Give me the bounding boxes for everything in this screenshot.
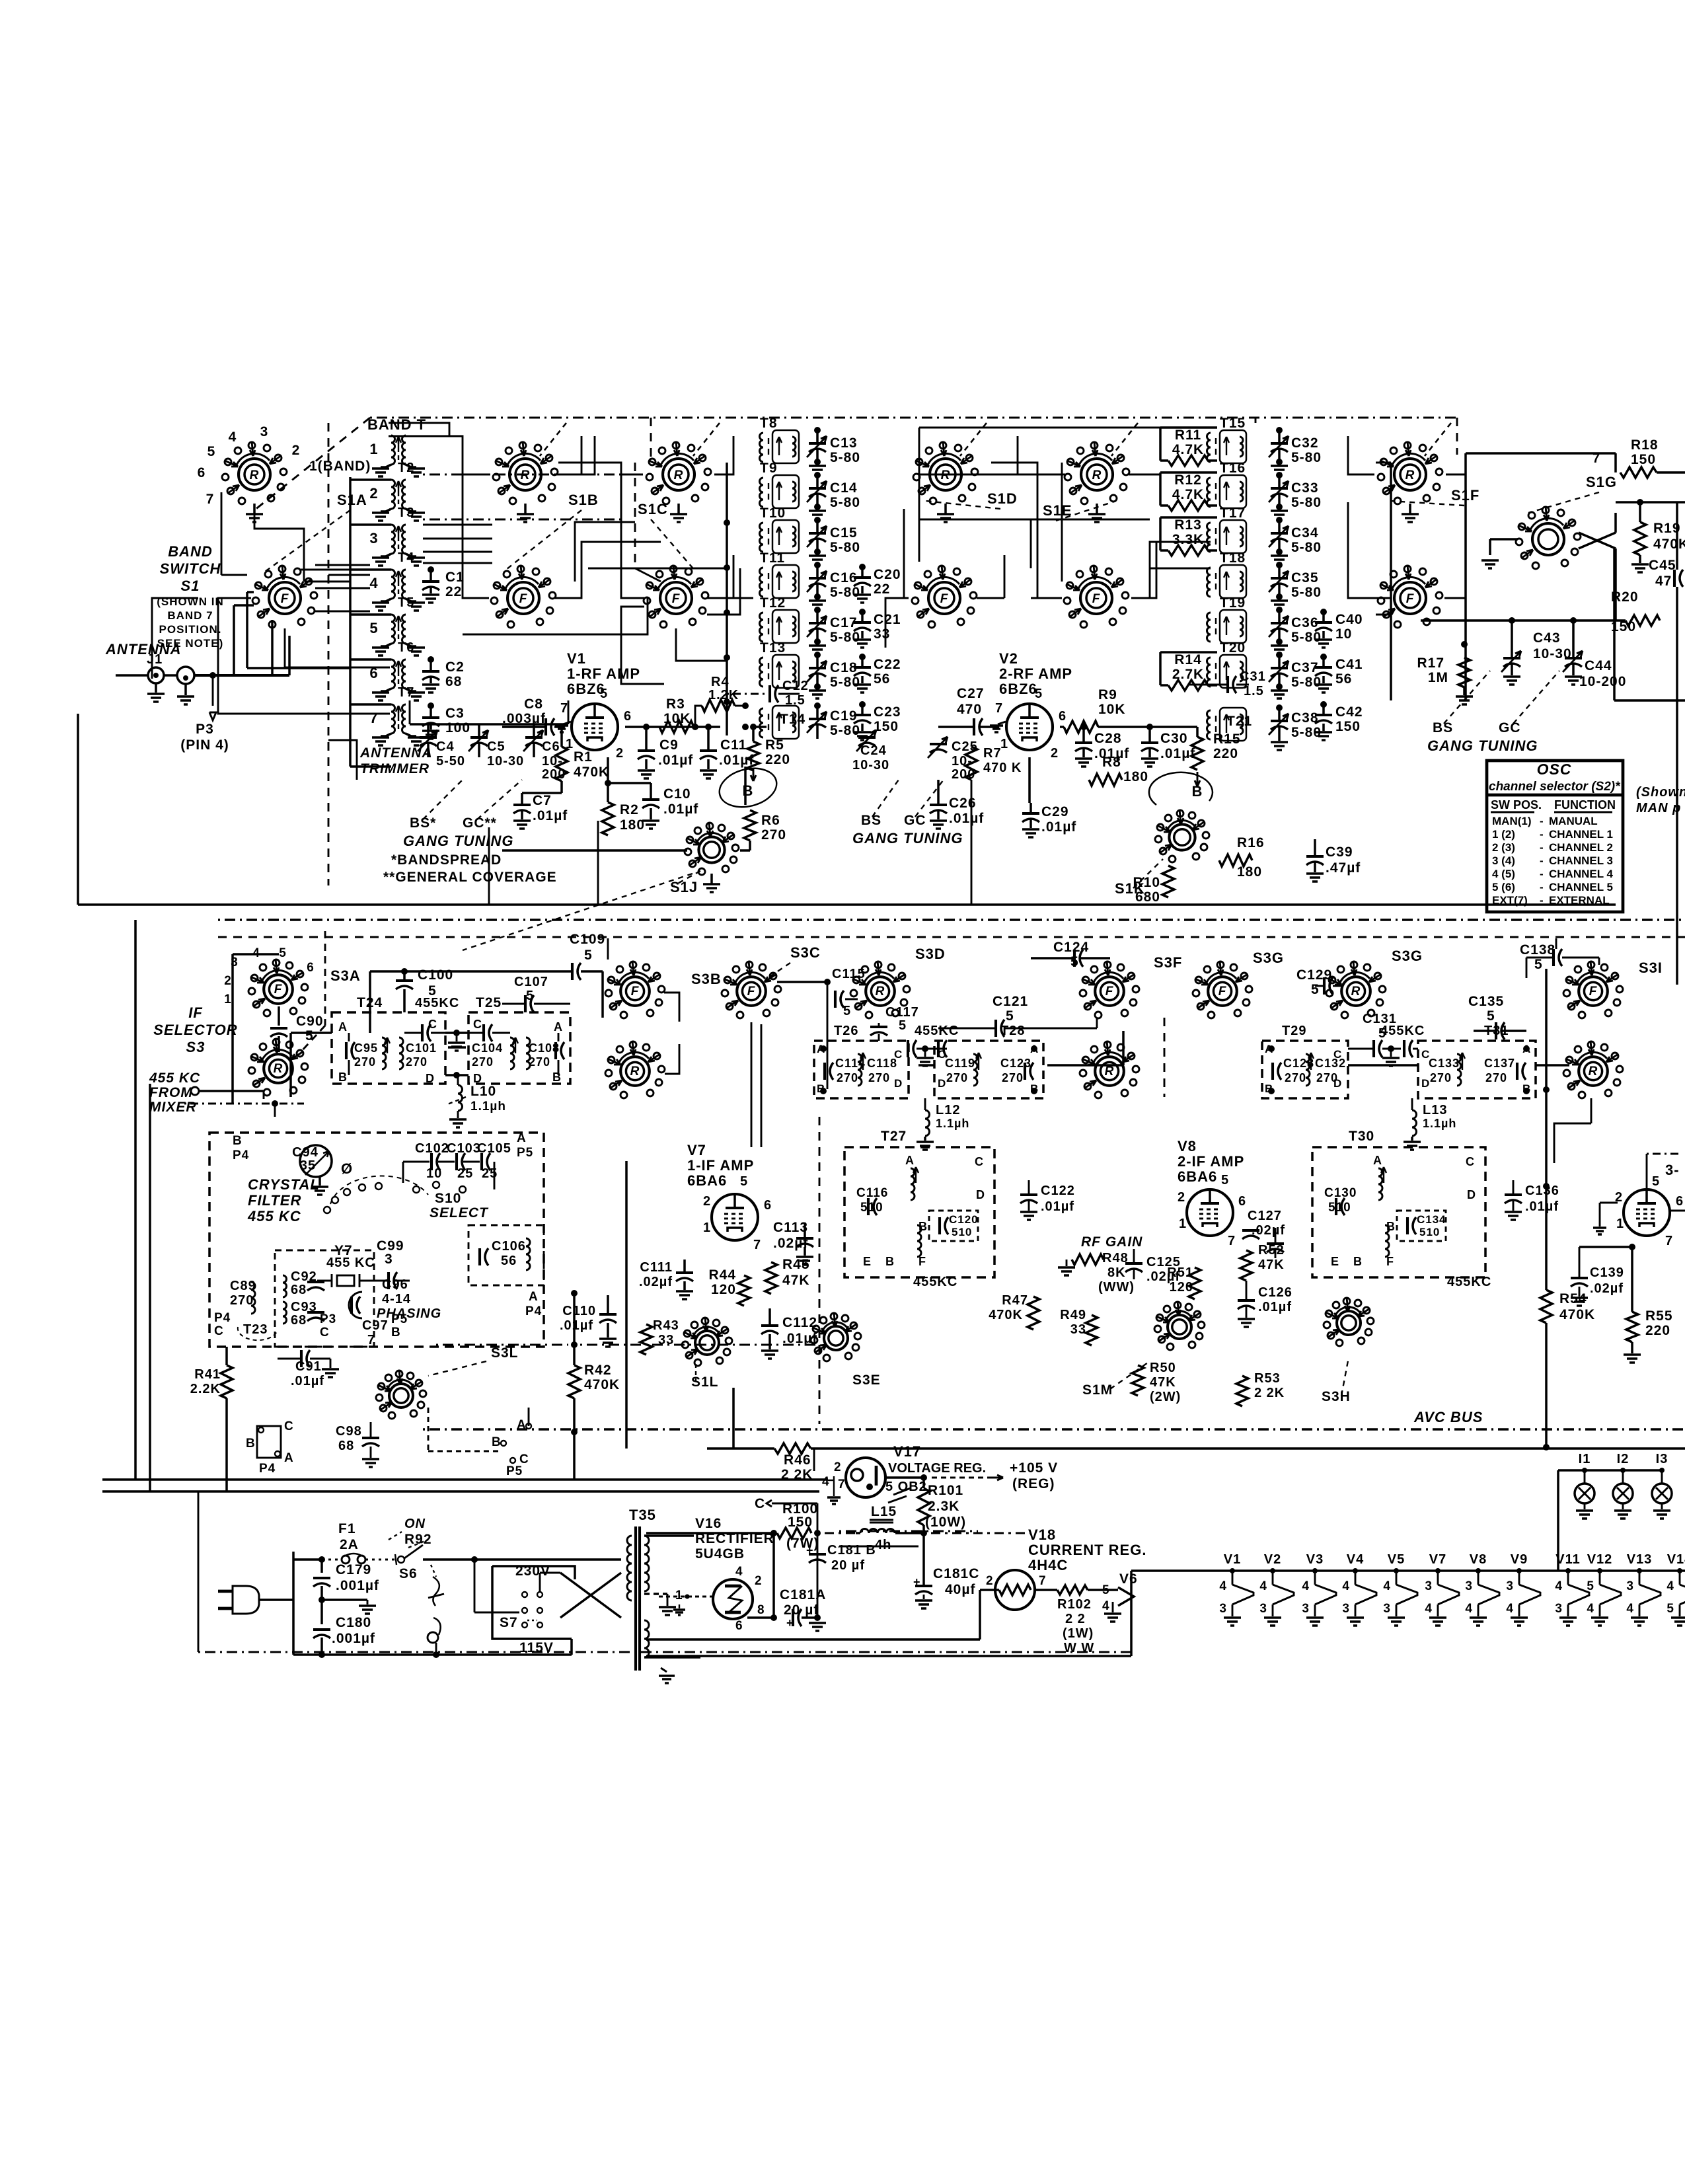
svg-text:115V: 115V (519, 1640, 554, 1655)
svg-text:channel selector (S2)*: channel selector (S2)* (1489, 780, 1621, 794)
svg-text:EXT(7): EXT(7) (1492, 894, 1528, 907)
svg-text:AVC BUS: AVC BUS (1413, 1409, 1483, 1425)
svg-text:V17: V17 (893, 1443, 921, 1460)
svg-text:S1: S1 (181, 578, 200, 594)
svg-text:270: 270 (1316, 1071, 1338, 1084)
svg-text:470K: 470K (574, 765, 609, 780)
svg-text:455KC: 455KC (915, 1024, 959, 1038)
svg-text:R6: R6 (761, 813, 780, 828)
svg-text:C100: C100 (418, 967, 453, 983)
svg-text:150: 150 (1335, 719, 1361, 734)
svg-text:R42: R42 (584, 1363, 612, 1378)
svg-text:1: 1 (675, 1589, 683, 1602)
svg-text:8K: 8K (1107, 1265, 1126, 1280)
svg-text:T6: T6 (398, 640, 414, 655)
svg-text:1.2K: 1.2K (708, 688, 739, 702)
svg-text:180: 180 (620, 817, 645, 833)
svg-text:1(BAND): 1(BAND) (309, 459, 371, 474)
svg-text:3: 3 (1383, 1602, 1391, 1616)
svg-text:5-80: 5-80 (1291, 495, 1322, 510)
svg-text:.02µf: .02µf (1252, 1223, 1285, 1238)
svg-text:68: 68 (445, 674, 462, 689)
svg-text:R48: R48 (1102, 1251, 1129, 1265)
svg-text:J1: J1 (147, 652, 163, 667)
svg-text:.01µf: .01µf (1258, 1300, 1292, 1314)
svg-text:2 2: 2 2 (1065, 1612, 1086, 1626)
svg-text:C136: C136 (1525, 1184, 1559, 1198)
svg-text:T23: T23 (243, 1322, 268, 1337)
svg-text:B: B (246, 1437, 256, 1450)
svg-text:R102: R102 (1057, 1597, 1092, 1612)
svg-text:4: 4 (229, 430, 237, 445)
svg-text:T35: T35 (629, 1507, 656, 1523)
svg-text:C117: C117 (885, 1005, 919, 1020)
svg-text:V13: V13 (1627, 1552, 1653, 1567)
svg-text:C129: C129 (1296, 967, 1332, 983)
svg-text:S3I: S3I (1639, 960, 1663, 976)
svg-text:20 µf: 20 µf (831, 1558, 865, 1573)
svg-text:D: D (1467, 1188, 1476, 1201)
svg-text:C: C (284, 1419, 294, 1433)
svg-text:1-RF AMP: 1-RF AMP (567, 665, 640, 682)
svg-text:BAND 7: BAND 7 (167, 609, 213, 622)
svg-text:D: D (426, 1072, 435, 1085)
svg-text:3 (4): 3 (4) (1492, 854, 1515, 867)
svg-text:F: F (519, 592, 528, 606)
svg-text:68: 68 (291, 1313, 307, 1328)
svg-text:68: 68 (291, 1283, 307, 1297)
svg-text:CHANNEL 1: CHANNEL 1 (1549, 828, 1613, 841)
svg-text:4.7K: 4.7K (1172, 442, 1204, 457)
svg-text:GANG TUNING: GANG TUNING (1427, 737, 1538, 754)
svg-text:C132: C132 (1315, 1057, 1346, 1070)
svg-text:2: 2 (369, 485, 378, 502)
svg-text:7: 7 (1039, 1574, 1047, 1588)
svg-text:C15: C15 (830, 525, 858, 541)
svg-text:I2: I2 (1617, 1452, 1629, 1466)
svg-text:S7: S7 (500, 1615, 518, 1630)
svg-text:1: 1 (703, 1221, 711, 1235)
svg-text:5: 5 (1221, 1173, 1229, 1187)
svg-text:C7: C7 (533, 793, 552, 808)
svg-text:R14: R14 (1174, 652, 1202, 667)
svg-text:4: 4 (1342, 1579, 1350, 1593)
svg-text:C101: C101 (406, 1041, 437, 1055)
svg-text:6: 6 (198, 465, 206, 480)
svg-text:MAN p: MAN p (1636, 801, 1681, 815)
svg-text:4 (5): 4 (5) (1492, 868, 1515, 880)
svg-text:R16: R16 (1237, 835, 1265, 850)
svg-text:.01µf: .01µf (1525, 1199, 1559, 1214)
svg-text:B: B (1353, 1255, 1363, 1268)
svg-text:C16: C16 (830, 570, 858, 585)
svg-text:C111: C111 (640, 1260, 673, 1275)
svg-text:F: F (274, 983, 283, 997)
svg-text:7: 7 (838, 1478, 846, 1491)
svg-text:10: 10 (1335, 626, 1352, 642)
svg-text:5-80: 5-80 (1291, 585, 1322, 600)
svg-text:R41: R41 (194, 1367, 221, 1382)
svg-text:V7: V7 (1429, 1552, 1446, 1567)
svg-text:W W: W W (1064, 1641, 1094, 1655)
svg-text:T17: T17 (1220, 506, 1246, 521)
svg-text:C35: C35 (1291, 570, 1319, 585)
svg-text:470K: 470K (1653, 537, 1685, 552)
svg-text:BS*: BS* (410, 815, 436, 831)
svg-text:CHANNEL 4: CHANNEL 4 (1549, 868, 1614, 880)
svg-text:S3C: S3C (790, 944, 821, 961)
svg-text:I1: I1 (1579, 1452, 1591, 1466)
svg-text:S3: S3 (186, 1039, 206, 1055)
svg-text:C42: C42 (1335, 704, 1363, 720)
svg-text:C: C (214, 1324, 224, 1338)
svg-text:1.5: 1.5 (785, 693, 805, 708)
svg-text:C31: C31 (1240, 669, 1266, 684)
svg-text:R43: R43 (653, 1318, 679, 1333)
svg-text:22: 22 (445, 584, 462, 599)
svg-text:C36: C36 (1291, 615, 1319, 630)
svg-text:C181A: C181A (780, 1587, 826, 1602)
svg-text:T15: T15 (1220, 416, 1246, 431)
svg-text:6BA6: 6BA6 (1178, 1168, 1217, 1185)
svg-text:-: - (1540, 841, 1544, 854)
svg-text:.01µf: .01µf (949, 811, 984, 826)
svg-text:R: R (1589, 1065, 1598, 1078)
svg-text:S3A: S3A (330, 967, 361, 984)
svg-text:270: 270 (761, 827, 786, 843)
svg-text:D: D (938, 1077, 946, 1090)
svg-text:.01µf: .01µf (1041, 819, 1076, 835)
svg-text:C40: C40 (1335, 612, 1363, 627)
svg-text:455KC: 455KC (415, 996, 459, 1010)
svg-text:270: 270 (837, 1071, 858, 1084)
svg-text:(1W): (1W) (1063, 1626, 1094, 1641)
svg-text:120: 120 (711, 1282, 736, 1297)
svg-text:V4: V4 (1347, 1552, 1364, 1567)
svg-text:MAN(1): MAN(1) (1492, 815, 1532, 827)
svg-text:C39: C39 (1326, 845, 1353, 860)
svg-text:F: F (1218, 985, 1227, 998)
svg-text:4H4C: 4H4C (1028, 1557, 1068, 1573)
svg-text:C121: C121 (992, 994, 1028, 1009)
svg-text:CHANNEL 5: CHANNEL 5 (1549, 881, 1613, 893)
svg-text:C5: C5 (487, 739, 505, 754)
svg-text:5: 5 (1006, 1008, 1014, 1024)
svg-text:5-80: 5-80 (830, 630, 860, 645)
svg-text:5: 5 (1035, 687, 1043, 701)
svg-text:F: F (672, 592, 681, 606)
svg-text:5U4GB: 5U4GB (695, 1546, 745, 1562)
svg-text:C96: C96 (382, 1277, 408, 1292)
svg-text:R: R (1351, 985, 1361, 998)
svg-text:7: 7 (995, 701, 1003, 716)
svg-text:2: 2 (1051, 746, 1059, 761)
svg-text:T7: T7 (398, 685, 414, 700)
svg-text:3: 3 (1219, 1602, 1227, 1616)
svg-text:.02µf: .02µf (639, 1275, 673, 1289)
svg-text:180: 180 (1123, 769, 1148, 784)
svg-text:4h: 4h (875, 1538, 891, 1552)
svg-text:C: C (755, 1496, 765, 1511)
svg-text:C: C (1466, 1155, 1475, 1168)
svg-text:56: 56 (501, 1254, 517, 1268)
svg-text:7: 7 (369, 710, 378, 726)
svg-text:F: F (940, 592, 949, 606)
svg-text:C29: C29 (1041, 804, 1069, 819)
svg-text:150: 150 (1631, 452, 1656, 467)
svg-text:270: 270 (1485, 1071, 1507, 1084)
svg-text:SW POS.: SW POS. (1491, 798, 1542, 811)
svg-text:56: 56 (1335, 671, 1352, 687)
svg-text:R: R (521, 469, 531, 482)
svg-text:2: 2 (224, 974, 232, 988)
svg-text:3: 3 (1506, 1579, 1514, 1593)
svg-text:R: R (1405, 469, 1415, 482)
svg-text:(7W): (7W) (786, 1536, 819, 1551)
svg-text:-: - (1540, 868, 1544, 880)
svg-text:2A: 2A (340, 1537, 359, 1552)
svg-text:470 K: 470 K (983, 761, 1022, 775)
svg-text:455 KC: 455 KC (149, 1071, 200, 1086)
svg-text:1.1µh: 1.1µh (936, 1117, 969, 1130)
svg-text:C109: C109 (570, 932, 605, 947)
svg-text:5: 5 (1587, 1579, 1594, 1593)
svg-text:(PIN 4): (PIN 4) (180, 737, 229, 753)
svg-text:2: 2 (703, 1194, 711, 1209)
svg-text:3.3K: 3.3K (1172, 532, 1204, 547)
svg-text:SELECTOR: SELECTOR (153, 1022, 237, 1038)
svg-text:2: 2 (1178, 1190, 1185, 1205)
svg-text:5-80: 5-80 (830, 585, 860, 600)
svg-text:T16: T16 (1220, 461, 1246, 476)
svg-text:.01µf: .01µf (658, 753, 693, 768)
svg-text:C95: C95 (354, 1041, 378, 1055)
svg-text:V1: V1 (567, 650, 586, 667)
svg-text:(2W): (2W) (1150, 1390, 1181, 1404)
svg-text:150: 150 (788, 1515, 813, 1530)
svg-text:5: 5 (1652, 1174, 1660, 1189)
svg-text:GC: GC (1499, 720, 1521, 735)
svg-text:R46: R46 (784, 1452, 811, 1468)
svg-text:5 OB2: 5 OB2 (885, 1480, 927, 1494)
svg-text:455 KC: 455 KC (247, 1208, 301, 1224)
svg-text:33: 33 (1070, 1322, 1086, 1337)
svg-text:C37: C37 (1291, 660, 1319, 675)
svg-text:2: 2 (616, 746, 624, 761)
svg-text:IF: IF (188, 1004, 203, 1021)
svg-text:C19: C19 (830, 708, 858, 724)
svg-text:470: 470 (957, 702, 982, 717)
svg-text:5-80: 5-80 (1291, 540, 1322, 555)
svg-text:C181 B: C181 B (827, 1543, 876, 1558)
svg-text:5-80: 5-80 (1291, 675, 1322, 690)
svg-text:4: 4 (1465, 1602, 1473, 1616)
svg-text:C34: C34 (1291, 525, 1319, 541)
svg-text:+: + (913, 1575, 921, 1589)
svg-text:R3: R3 (666, 697, 685, 712)
svg-text:P4: P4 (233, 1148, 249, 1162)
svg-text:B: B (918, 1220, 928, 1233)
svg-text:C119: C119 (945, 1057, 975, 1070)
svg-text:C38: C38 (1291, 710, 1319, 726)
svg-text:R52: R52 (1258, 1243, 1285, 1258)
svg-text:5: 5 (305, 1028, 314, 1043)
svg-text:R101: R101 (928, 1483, 963, 1498)
svg-text:47: 47 (1655, 574, 1672, 589)
svg-text:C9: C9 (659, 737, 679, 753)
svg-text:R49: R49 (1060, 1308, 1086, 1322)
svg-text:R: R (1092, 469, 1102, 482)
svg-text:B: B (233, 1134, 243, 1148)
svg-text:4: 4 (1666, 1579, 1674, 1593)
svg-text:C94: C94 (292, 1145, 318, 1160)
svg-text:R7: R7 (983, 746, 1002, 761)
svg-text:T31: T31 (1484, 1024, 1509, 1038)
svg-text:5-80: 5-80 (830, 723, 860, 738)
svg-text:.01µf: .01µf (291, 1374, 324, 1388)
svg-text:.01µf: .01µf (560, 1318, 593, 1333)
svg-text:5: 5 (1070, 954, 1079, 969)
svg-text:FROM: FROM (149, 1085, 193, 1100)
svg-text:R44: R44 (708, 1267, 736, 1283)
svg-text:T5: T5 (398, 595, 414, 610)
svg-text:-: - (1540, 815, 1544, 827)
svg-text:V5: V5 (1388, 1552, 1405, 1567)
svg-text:455 KC: 455 KC (326, 1256, 375, 1270)
svg-text:510: 510 (952, 1226, 972, 1238)
svg-text:6BA6: 6BA6 (687, 1172, 727, 1189)
svg-text:ANTENNA: ANTENNA (105, 641, 182, 658)
svg-text:S3G: S3G (1253, 950, 1284, 966)
svg-text:S3L: S3L (491, 1345, 519, 1361)
svg-text:R: R (250, 469, 260, 482)
svg-text:S6: S6 (399, 1566, 418, 1581)
svg-text:2-IF AMP: 2-IF AMP (1178, 1153, 1244, 1170)
svg-text:A: A (529, 1290, 539, 1304)
svg-text:270: 270 (230, 1293, 254, 1308)
svg-text:2.2K: 2.2K (190, 1382, 221, 1396)
svg-text:T19: T19 (1220, 595, 1246, 611)
svg-text:B: B (338, 1071, 348, 1084)
svg-text:C32: C32 (1291, 435, 1319, 451)
svg-text:R4: R4 (711, 675, 730, 689)
svg-text:T26: T26 (834, 1024, 858, 1038)
svg-text:Ø: Ø (341, 1160, 353, 1177)
svg-text:270: 270 (946, 1071, 968, 1084)
svg-text:T25: T25 (476, 995, 502, 1010)
svg-text:V2: V2 (999, 650, 1018, 667)
svg-text:5: 5 (369, 620, 378, 636)
svg-text:B: B (391, 1326, 401, 1339)
svg-text:5: 5 (1534, 957, 1543, 972)
svg-text:C8: C8 (524, 697, 543, 712)
svg-text:ON: ON (404, 1517, 426, 1531)
svg-text:.47µf: .47µf (1326, 860, 1361, 876)
svg-text:V16: V16 (695, 1516, 722, 1531)
svg-text:C21: C21 (874, 612, 901, 627)
svg-text:GANG TUNING: GANG TUNING (403, 833, 513, 849)
svg-text:C131: C131 (1363, 1012, 1397, 1026)
svg-text:R8: R8 (1102, 755, 1121, 770)
svg-text:C133: C133 (1429, 1057, 1460, 1070)
svg-text:.01µf: .01µf (663, 802, 698, 817)
svg-text:T3: T3 (398, 506, 414, 520)
svg-text:L15: L15 (871, 1504, 897, 1519)
svg-text:4: 4 (735, 1565, 743, 1579)
svg-text:220: 220 (1645, 1323, 1670, 1338)
svg-text:C: C (320, 1326, 330, 1339)
svg-text:4.7K: 4.7K (1172, 487, 1204, 502)
svg-text:A: A (284, 1451, 294, 1465)
svg-text:100: 100 (445, 720, 470, 735)
svg-text:5-50: 5-50 (436, 754, 465, 769)
svg-text:C11: C11 (720, 737, 747, 753)
svg-text:4: 4 (1259, 1579, 1267, 1593)
svg-text:GANG TUNING: GANG TUNING (852, 830, 963, 847)
svg-text:3: 3 (385, 1252, 393, 1267)
svg-text:+: + (786, 1616, 794, 1630)
svg-text:10-30: 10-30 (487, 754, 524, 769)
svg-text:C179: C179 (336, 1562, 371, 1577)
svg-text:5: 5 (740, 1174, 748, 1189)
svg-text:R50: R50 (1150, 1361, 1176, 1375)
svg-text:(Shown: (Shown (1636, 785, 1685, 800)
svg-text:C28: C28 (1094, 731, 1122, 746)
svg-text:5-80: 5-80 (830, 540, 860, 555)
svg-text:TRIMMER: TRIMMER (360, 761, 430, 776)
svg-text:T10: T10 (760, 506, 786, 521)
svg-text:S1G: S1G (1586, 474, 1617, 490)
svg-text:S1A: S1A (337, 492, 367, 508)
svg-text:S3F: S3F (1154, 954, 1182, 971)
svg-text:V2: V2 (1264, 1552, 1281, 1567)
svg-text:3: 3 (369, 530, 378, 546)
svg-text:C115: C115 (832, 967, 866, 981)
svg-text:.02µf: .02µf (1590, 1281, 1624, 1296)
svg-text:P3: P3 (320, 1312, 336, 1326)
svg-text:6: 6 (735, 1619, 743, 1633)
svg-text:47K: 47K (1150, 1375, 1176, 1390)
svg-text:C108: C108 (529, 1041, 560, 1055)
svg-text:3: 3 (1259, 1602, 1267, 1616)
svg-text:B: B (552, 1071, 562, 1084)
svg-text:V7: V7 (687, 1142, 706, 1158)
svg-text:C118: C118 (867, 1057, 897, 1070)
svg-text:680: 680 (1135, 889, 1160, 905)
svg-text:C123: C123 (1000, 1057, 1031, 1070)
svg-text:270: 270 (1430, 1071, 1452, 1084)
svg-text:5-80: 5-80 (830, 675, 860, 690)
svg-text:C33: C33 (1291, 480, 1319, 496)
svg-text:C116: C116 (856, 1186, 888, 1200)
svg-text:B: B (492, 1435, 502, 1449)
svg-text:510: 510 (860, 1201, 883, 1215)
svg-text:OSC: OSC (1537, 761, 1572, 778)
svg-text:C127: C127 (1248, 1209, 1282, 1223)
svg-text:3-: 3- (1665, 1162, 1680, 1178)
svg-text:C20: C20 (874, 567, 901, 582)
svg-text:4: 4 (1102, 1599, 1110, 1613)
svg-text:270: 270 (1285, 1071, 1306, 1084)
svg-text:T20: T20 (1220, 640, 1246, 656)
svg-text:4: 4 (1425, 1602, 1433, 1616)
svg-text:10K: 10K (663, 711, 691, 726)
svg-text:270: 270 (354, 1055, 376, 1069)
svg-text:C120: C120 (949, 1213, 979, 1226)
svg-text:CURRENT REG.: CURRENT REG. (1028, 1542, 1146, 1558)
svg-text:2.3K: 2.3K (928, 1499, 959, 1514)
svg-text:E: E (863, 1255, 872, 1268)
